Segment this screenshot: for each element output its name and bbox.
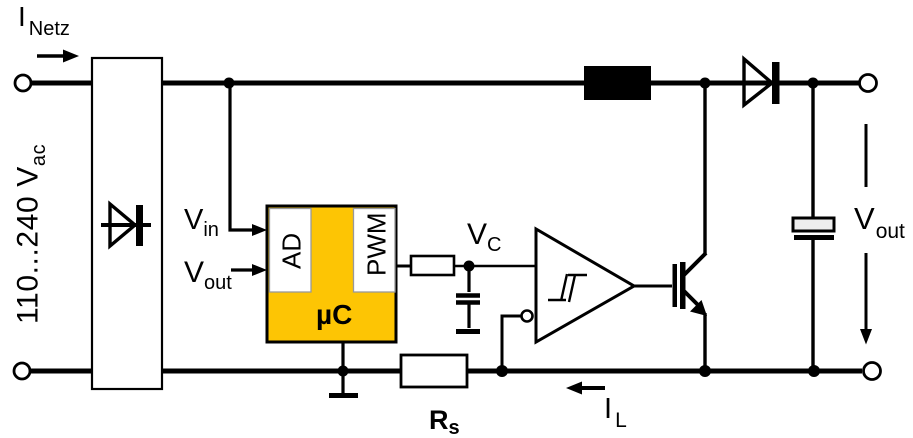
svg-text:µC: µC <box>316 299 352 330</box>
svg-text:AD: AD <box>277 233 307 269</box>
wire cap top <box>811 83 814 218</box>
diode D1 <box>744 59 780 105</box>
ground under uC <box>329 393 358 398</box>
arrow IL <box>566 382 605 395</box>
wire Vin tap <box>230 85 258 230</box>
ground at C1 <box>456 329 480 334</box>
svg-text:PWM: PWM <box>362 212 392 276</box>
wire Vout sense stub <box>231 268 258 271</box>
wire comparator output <box>634 285 672 288</box>
wire PWM out <box>396 265 411 268</box>
node shunt junction <box>496 365 508 377</box>
wire top rail <box>29 81 860 86</box>
capacitor C2 output <box>793 218 834 240</box>
node uC ground junction <box>338 366 349 377</box>
terminal bottom-left <box>14 363 30 379</box>
terminal top-left <box>15 75 31 91</box>
transistor Q1 IGBT <box>673 253 708 316</box>
capacitor C1 <box>456 268 480 328</box>
microcontroller U1 <box>267 206 396 342</box>
node cap bottom junction <box>808 365 820 377</box>
wire cap bottom <box>811 240 814 371</box>
wire uC to ground <box>341 342 344 394</box>
arrow I_Netz <box>37 50 79 63</box>
node emitter junction <box>699 365 711 377</box>
node cap top junction <box>808 78 819 89</box>
wire Vc <box>454 265 536 268</box>
resistor Rs <box>401 355 467 387</box>
node collector junction <box>700 78 711 89</box>
arrow Vout right bottom segment <box>860 253 872 345</box>
rectifier diode <box>101 204 151 246</box>
svg-text:110...240 Vac: 110...240 Vac <box>12 144 51 324</box>
wire collector <box>703 83 706 254</box>
wire bottom rail <box>28 369 862 374</box>
terminal top-right <box>860 75 877 92</box>
arrow Vout right top segment <box>865 124 868 187</box>
inductor L1 <box>584 66 651 100</box>
comparator U2 <box>522 229 635 342</box>
terminal bottom-right <box>864 363 881 380</box>
node Vc <box>464 261 475 272</box>
resistor filter R <box>411 256 454 275</box>
bridge rectifier box <box>92 58 162 389</box>
node top tap junction <box>224 78 235 89</box>
wire emitter <box>703 313 706 371</box>
wire inverting input <box>502 316 521 369</box>
